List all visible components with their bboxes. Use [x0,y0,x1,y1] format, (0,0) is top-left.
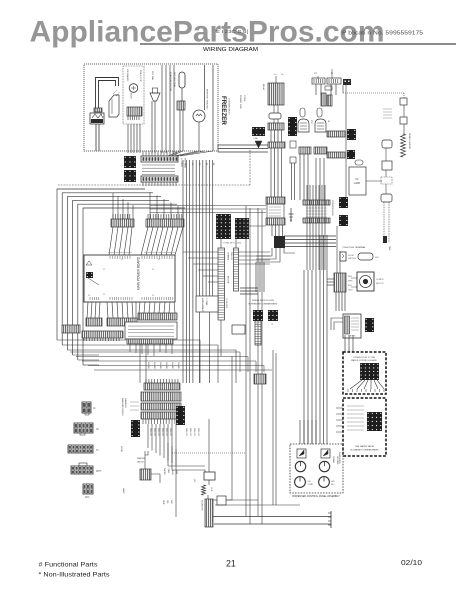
left aux column grid [288,117,297,136]
solenoid chain feed wire [208,419,210,472]
svg-text:WATER: WATER [163,468,166,475]
solenoid tall bar [205,499,213,527]
ice maker fill cup [109,95,119,117]
small rect below strips [232,325,245,334]
svg-text:HARNESS: HARNESS [124,398,127,408]
compressor cup 1 [298,119,309,132]
freezer connector bar A [141,156,178,162]
svg-text:P blicati n No. 5995559175: P blicati n No. 5995559175 [342,31,423,37]
wires block to lower [335,292,337,311]
svg-text:YELLOW: YELLOW [193,428,195,436]
right heater resistor zigzag [401,134,406,157]
svg-text:* Non-Illustrated Parts: * Non-Illustrated Parts [39,572,111,579]
compressor connector bar lower [303,218,330,223]
water board fan [350,380,362,389]
svg-text:MOTOR: MOTOR [376,283,384,285]
right chain rect 1 [400,98,407,105]
mid col wires upper [385,148,387,161]
main board edge tick text top [108,252,132,254]
svg-text:CONN 4FY L LK03: CONN 4FY L LK03 [223,243,242,245]
svg-text:YELLOW: YELLOW [185,428,187,436]
svg-text:IN CABINET COMPARTMENT: IN CABINET COMPARTMENT [350,449,379,452]
svg-text:THE WATER VALVE: THE WATER VALVE [355,445,375,448]
aux black grid mid 2 [347,150,355,159]
dispenser knob circle 1 [295,461,305,471]
ice maker motor circle [129,84,138,93]
svg-text:COIL: COIL [210,487,212,491]
svg-text:COMPR: COMPR [376,279,384,281]
cup connector strip 1 [299,147,311,154]
freezer internal wires down [127,124,129,153]
svg-text:YELLOW: YELLOW [197,428,199,436]
board bottom fan left [87,302,88,318]
defrost thermostat connector [177,101,185,110]
ice maker plug connector [90,113,104,124]
right text block [383,108,392,110]
ladder upper relay block [268,83,284,105]
svg-text:GND: GND [388,246,390,251]
svg-text:YEL: YEL [166,500,168,504]
board connector J1 bar [111,219,134,227]
svg-text:YELLOW: YELLOW [230,252,232,260]
wire trunk vertical bundle [182,160,184,383]
left aux rect 1 [290,141,296,148]
mid col rounded rect 3 [381,194,392,202]
main board corner connector [86,272,93,278]
svg-text:COMPARTMENT: COMPARTMENT [228,98,231,116]
cup connector strip 2 [314,147,327,154]
label box mid [196,296,218,312]
svg-text:MAIN BRD WIRING: MAIN BRD WIRING [121,398,124,416]
right area link wires [342,85,344,93]
arrow blob [255,141,262,148]
svg-text:LINE: LINE [253,138,258,140]
freezer connector bar B [141,176,178,182]
aux black grid right 1 [339,197,348,208]
dispenser actuator square 1 [297,449,306,458]
defrost heater lead wire [204,65,206,110]
svg-text:YELLOW: YELLOW [153,428,155,436]
svg-text:ICE MAKER: ICE MAKER [126,69,129,81]
ladder upper wires [273,105,275,113]
svg-text:BLK: BLK [348,285,352,287]
wire thick loop supply [96,78,119,112]
svg-text:FILL: FILL [331,484,335,486]
wire from plug down [95,124,97,151]
wires to water board box [344,335,346,352]
ground symbol [290,208,292,222]
freezer fan funnel symbol [150,93,160,101]
svg-text:FRESH FOOD DOORS: FRESH FOOD DOORS [252,300,274,302]
wire stack to chain [168,443,205,466]
wire staircase drops to board connectors [112,193,114,219]
svg-text:FREEZER: FREEZER [220,96,227,125]
relay block feed wire [331,318,343,330]
svg-text:WATER CONTROL BOARD: WATER CONTROL BOARD [351,359,377,362]
board bottom bar left [86,318,102,326]
compressor connector bar upper [303,200,330,205]
freezer wires to connector [198,122,200,151]
rung strip 1 bottom stub [220,320,222,356]
svg-text:MOLD HTR: MOLD HTR [139,70,141,82]
stack left text rows [130,401,139,403]
terminal bar 1 [312,78,325,84]
long power runs to compressor [150,205,266,207]
board bottom fan mid [107,302,108,318]
board connector J2 bar [146,219,184,227]
right chain rect 2 [400,117,407,124]
door connector J3 grid [68,445,93,453]
svg-text:MAIN POWER BOARD: MAIN POWER BOARD [137,256,141,290]
board bottom fan right [139,302,140,313]
black grid beside relay block [365,318,374,332]
svg-text:DISPENSER CONTROL PANEL ASSEMB: DISPENSER CONTROL PANEL ASSEMBLY [292,495,340,498]
lamp box [349,167,366,195]
chain wire mid horizontal [215,504,300,506]
door switch capsule [358,253,373,260]
right mid wires [336,226,338,273]
compressor wires through [306,185,308,270]
svg-text:TA PTS: TA PTS [349,335,356,338]
freezer connector label rows [142,164,175,166]
header rule line [140,43,456,45]
wire freezer to ladder [218,144,268,146]
svg-text:SOLENOID: SOLENOID [201,500,203,511]
svg-text:DEFROST HEATER: DEFROST HEATER [206,89,209,109]
stack black grid right [176,406,185,425]
solenoid chain rect [204,472,215,480]
mid col dashed wires [383,202,385,243]
middle connector black grid 1 [216,214,231,239]
ice maker connector bar [127,107,142,116]
svg-text:LAMP: LAMP [122,488,125,494]
svg-text:VALVE: VALVE [137,461,144,464]
svg-text:WIRING DIAGRAM: WIRING DIAGRAM [203,47,258,53]
svg-text:WATER: WATER [137,457,145,460]
water valve wires [144,451,146,469]
svg-text:BROWN: BROWN [227,276,229,284]
mid col dotted rect [381,177,392,184]
mid col rounded rect 1 [382,140,392,148]
svg-text:DRAIN HEATER: DRAIN HEATER [408,133,411,150]
relay block with rows [343,314,361,338]
svg-text:H2O: H2O [331,481,335,483]
water board black grid [360,363,379,380]
rung strip elbows left [183,251,218,253]
svg-text:PTC: PTC [310,120,312,125]
freezer right inner wire [212,65,214,151]
harness stack block A [144,383,180,390]
door switch rect [340,252,346,261]
ff black grid 2 [268,310,278,321]
relay body 1 [321,93,326,106]
terminal wires down [315,84,317,95]
svg-text:ORANGE: ORANGE [227,252,230,261]
svg-text:ORG: ORG [348,290,353,292]
board lower bar left [82,331,123,338]
aux black grid right 2 [339,215,348,226]
overload capsule 2 [317,108,322,117]
board connector J1 fan [109,227,113,255]
direct box text rows [347,405,364,407]
svg-text:CONNECTION TO THE: CONNECTION TO THE [353,357,376,359]
svg-text:SWITCH: SWITCH [348,258,356,260]
water valve body [140,469,151,480]
wire runs under board [70,351,240,353]
wires compressor to dispenser [303,270,305,444]
wire runs verticals right [239,352,241,372]
lamp auto switch square [357,272,374,291]
svg-text:YELLOW: YELLOW [157,428,159,436]
ladder wires [270,148,272,197]
direct box left stubs [336,407,343,409]
board bottom bar right [138,313,177,320]
direct connection dashed box [343,398,386,456]
stack bottom fan wires [147,424,149,448]
svg-text:J1 CONN: J1 CONN [180,158,182,167]
svg-text:SEC NEUTRAL: SEC NEUTRAL [173,72,176,88]
wires dispenser feed right pair [319,235,321,444]
svg-text:E I 23C S 6|: E I 23C S 6| [216,29,248,35]
ladder lower wires [271,225,273,236]
wire stack left drop [145,451,148,455]
door connector WIC grid [83,484,93,494]
svg-text:WHT: WHT [96,471,102,473]
board lower bar far left [62,325,80,333]
chain link wires [208,480,210,485]
svg-text:J CONN: J CONN [205,298,207,306]
svg-text:PUSH THIS TERMINAL: PUSH THIS TERMINAL [342,246,366,249]
svg-text:BRN: BRN [175,470,177,475]
defrost thermostat capsule [179,72,185,88]
ladder upper hatched strip [268,123,284,130]
rung strip 1 [218,248,225,320]
middle connector black grid 2 [235,218,249,239]
ice maker plug hatch strip [94,108,102,112]
bottom right bracket [330,511,332,528]
svg-text:GRN: GRN [162,500,164,505]
compartment boundary dashed line [58,184,250,186]
svg-text:YELLOW: YELLOW [189,428,191,436]
svg-text:TO DOORS: TO DOORS [225,298,227,309]
water control board dashed box [343,352,386,394]
left aux wires [291,163,293,200]
svg-text:# Functional Parts: # Functional Parts [39,562,99,569]
svg-text:GROUND: GROUND [336,456,338,465]
dispenser feed wires [299,420,301,444]
board lower exit wires [129,344,131,352]
solenoid side rect [217,496,226,505]
dispenser knob circle 3 [295,477,306,488]
dotted supply line [343,92,404,94]
board lower text box [125,322,177,339]
svg-text:MAIN HARNESS: MAIN HARNESS [201,298,204,313]
direct box black grid [367,412,382,431]
terminal mid small rect [325,86,332,90]
svg-text:YELLOW: YELLOW [165,428,167,436]
dispenser actuator square 2 [321,449,330,458]
relay body 2 [327,95,332,106]
compressor cup 2 [315,119,326,132]
dispenser control dashed box [290,444,343,493]
right chain wire 2 [403,124,405,134]
svg-text:YELLOW: YELLOW [149,428,151,436]
svg-text:MOLD: MOLD [130,93,132,99]
long bottom wire A [213,516,331,518]
svg-text:02/10: 02/10 [401,558,422,567]
ladder top bar [268,142,285,148]
door connector LF grid [82,402,91,413]
svg-text:21: 21 [226,559,236,569]
right link bar 2 [327,152,345,158]
freezer compartment dashed box [84,64,218,151]
stack black grid left [131,420,140,437]
solenoid coil zigzag [202,485,206,495]
right link bar 1 [327,131,345,137]
aux black grid mid 1 [347,129,356,140]
overload capsule 1 [300,108,305,117]
compressor connector text rows [306,207,327,209]
harness stack block B [141,392,181,401]
svg-text:IN FREEZER COMPARTMENT: IN FREEZER COMPARTMENT [248,303,278,306]
small rung strip lower [255,320,261,345]
svg-text:BLUE: BLUE [171,470,173,476]
ladder upper rounded bar [269,113,281,119]
bottom verticals [257,208,259,516]
board bottom bar mid [107,318,137,326]
wires into lamp connector [327,278,334,280]
svg-text:DOOR: DOOR [348,255,355,257]
long bottom wire B [214,523,331,525]
svg-text:TUBE: TUBE [167,468,169,474]
svg-text:YELLOW: YELLOW [161,428,163,436]
svg-text:YELLOW: YELLOW [169,428,171,436]
rung strip elbows right [239,251,271,253]
rung strip stubs top [220,239,222,248]
left aux rect 2 [290,157,296,163]
svg-text:POWER LINE: POWER LINE [239,95,241,109]
freezer connector black grid 2 [124,170,136,182]
small hatched block lower [254,374,266,384]
defrost heater circle [193,110,205,122]
svg-text:CUBE: CUBE [308,484,314,486]
wire runs right mid [284,235,336,237]
dispenser knob circle 4 [319,477,330,488]
svg-text:DOOR: DOOR [120,446,122,453]
board lower text box strip [127,339,173,344]
svg-text:FRZ FAN: FRZ FAN [151,71,154,81]
board lower exit pair [139,344,141,383]
door connector WHT grid [79,463,87,466]
ice maker dotted box [123,66,144,124]
small dark connector pair top [343,79,351,85]
harness stack block C [141,403,181,410]
mid col rect 2 [382,161,392,170]
svg-text:LAMP: LAMP [354,182,361,185]
lamp harness connector block [334,273,346,292]
right chain wire 1 [403,105,405,117]
svg-text:COMPRESSOR: COMPRESSOR [331,200,333,216]
svg-text:WHT: WHT [348,281,353,283]
svg-text:DISPENSER: DISPENSER [338,452,340,464]
door connector CF grid [74,423,93,433]
dotted wire lower [172,452,246,454]
rung strip 2 [234,248,239,291]
ladder bundle turn [256,248,272,256]
line black grid connector [252,127,265,136]
lamp block side pins [351,277,353,279]
ff black grid 1 [253,310,263,321]
freezer connector black grid 1 [124,156,136,168]
terminal bar 2 [327,78,341,84]
main board box [84,255,175,302]
ladder dark blob connector [274,236,285,248]
svg-text:SIGNAL: SIGNAL [332,456,335,463]
dispenser knob circle 2 [319,461,329,471]
tiny dark connector far right [383,236,387,243]
ff horizontal bundle [240,287,258,289]
wire bottom returns [73,354,99,356]
solenoid side feed wire [226,356,232,500]
small oval [355,160,363,165]
water board pin ticks [347,389,349,392]
terminal label stems [331,69,333,79]
svg-text:CORD: CORD [243,95,245,102]
wire bundle nested loops [57,189,145,340]
cup wires down [299,154,301,200]
svg-text:EVAP FAN MOTOR: EVAP FAN MOTOR [169,72,172,92]
svg-text:RELAY: RELAY [262,84,265,91]
ladder connector block [266,197,285,204]
svg-text:WIC: WIC [85,497,90,499]
board connector J2 fan [141,227,148,255]
main board inner row labels [109,256,111,259]
harness stack block D [141,412,181,419]
wire verticals below ladder [255,262,257,292]
